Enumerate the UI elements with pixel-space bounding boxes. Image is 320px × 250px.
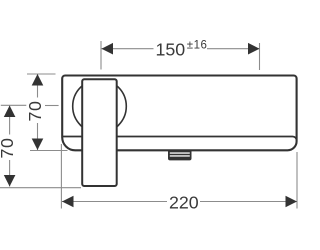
lever handle xyxy=(82,79,117,186)
svg-text:150: 150 xyxy=(156,40,186,60)
arrow inner 70 bottom xyxy=(32,139,44,151)
arrow left of 220 dim xyxy=(62,196,74,208)
dimension line 150 right segment xyxy=(207,48,260,50)
extension line y150.5 (body bottom) xyxy=(30,150,68,152)
arrow outer 70 bottom xyxy=(4,175,16,187)
arrow outer 70 top xyxy=(4,106,16,118)
extension line y187 (handle bottom) xyxy=(0,187,81,189)
outlet rib gap 1 xyxy=(170,152,190,153)
extension line bottom-left (220 dim) xyxy=(60,144,62,209)
svg-text:220: 220 xyxy=(169,193,199,213)
extension line y74 (inner 70 top) xyxy=(27,73,56,75)
svg-text:±16: ±16 xyxy=(187,40,208,52)
extension line bottom-right (220 dim) xyxy=(296,152,298,209)
extension line y105.5 segment b (axis) xyxy=(45,105,59,107)
inner 70 dimension line lower xyxy=(37,123,39,150)
outer 70 dimension line upper xyxy=(9,106,11,135)
outer 70 dimension line lower xyxy=(9,160,11,187)
dimension line 150 left segment xyxy=(102,48,154,50)
body seam line xyxy=(62,137,296,141)
faucet body outline xyxy=(62,76,296,151)
extension line top-left (150 dim) xyxy=(100,41,102,70)
escutcheon circle xyxy=(73,80,127,134)
svg-text:70: 70 xyxy=(0,138,17,159)
arrow left of 150 dim xyxy=(102,43,114,55)
outlet ribbed nut xyxy=(168,150,192,160)
arrow right of 150 dim xyxy=(248,43,260,55)
inner 70 dimension line upper xyxy=(37,74,39,98)
svg-text:70: 70 xyxy=(25,101,45,122)
arrow right of 220 dim xyxy=(286,196,298,208)
extension line top-right (150 dim) xyxy=(259,43,261,70)
dimension line 220 right segment xyxy=(200,201,297,203)
extension line y105.5 segment a (axis) xyxy=(1,104,27,106)
arrow inner 70 top xyxy=(32,74,44,86)
dimension line 220 left segment xyxy=(62,201,167,203)
outlet rib gap 2 xyxy=(170,155,190,156)
